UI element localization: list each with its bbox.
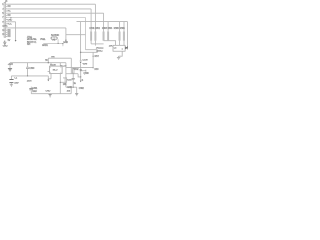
resistor R304 body [107,32,109,41]
U300 bottom pin 2 [59,74,61,94]
wire y93.7 bottom [31,93,71,95]
wire drop to R303 [103,13,105,41]
wire drop gnd net [85,18,87,50]
connector J300 body [4,3,6,38]
svg-text:NC: NC [8,11,12,13]
drop tail x62.9 [62,43,64,46]
svg-text:Q3012: Q3012 [96,51,103,53]
jumper drop wire [57,39,59,43]
svg-text:100n: 100n [27,80,32,82]
wire x71.3 drop [70,58,72,73]
svg-text:C302: C302 [79,88,85,90]
stub y77.9 left of x65.9 [63,77,66,79]
resistor R307 body [65,78,67,82]
resistor R302 body [95,32,97,41]
svg-text:4148: 4148 [83,63,88,65]
svg-text:10u: 10u [67,91,71,93]
svg-text:Q300: Q300 [84,73,90,75]
wire y87.2 [66,86,77,88]
ground under connector [3,41,6,45]
svg-text:R30: R30 [95,69,100,71]
wire y43.4 [43,42,63,44]
vcc drop x80.6 [80,22,82,60]
wire net6 long [7,27,66,29]
rail y62.7 [10,62,66,64]
wire x48.3 flag stub [47,76,49,80]
svg-text:10K: 10K [63,84,67,86]
junction node x80.7 [80,76,81,77]
svg-text:5V: 5V [8,40,11,42]
svg-text:GND1: GND1 [42,45,49,47]
junction node U300 pin [60,82,61,83]
resistor R305 lead [119,22,121,46]
wire x78.1 jog [78,74,81,77]
cap C300 top lead [27,63,29,67]
svg-text:U300: U300 [50,65,56,67]
flag arrow at x80.7 low [80,81,82,83]
svg-text:R302: R302 [74,69,80,71]
svg-text:VIN: VIN [51,57,55,59]
junction node bottom rail [73,87,74,88]
svg-text:MODE SEL: MODE SEL [27,39,38,41]
svg-text:RST: RST [95,56,100,58]
svg-text:C300: C300 [29,68,35,70]
gnd under box2 [117,56,120,59]
wire x76.7 gnd drop [76,87,78,93]
svg-text:1u: 1u [74,83,77,85]
svg-text:S: S [82,80,84,82]
wire y43.9 collector [91,43,104,45]
resistor R306 lead [123,22,125,46]
U300 top pin stubs [51,63,60,66]
wire x80.7 flag stub [80,77,82,81]
svg-text:NC: NC [5,26,9,28]
junction node in box LS300 [122,48,123,49]
wire x65.9 lower [65,82,67,87]
wire x73.2 lower comp [72,74,74,78]
wire net5 short [7,21,15,23]
wire y73.7 [66,73,78,75]
U300 bottom pin 1 [50,74,52,79]
cap C301 bottom-left leads [30,87,32,94]
svg-text:R306: R306 [120,28,126,30]
wire y67.6 [66,67,93,69]
vcc rail drop to box [127,22,129,48]
wire flag drop A [15,22,17,40]
stub y70.7 from x80.7 [81,70,86,72]
wire y82.3 [60,81,66,83]
U300 left pin stub [48,70,50,72]
wire y52.3 [81,51,98,53]
wire x48.3 drop [47,58,49,63]
svg-text:NC: NC [8,15,12,17]
cap C300 bottom lead [27,69,29,76]
svg-text:VCC: VCC [7,24,12,26]
box2 bottom pin wire [119,51,123,56]
svg-text:NC: NC [8,6,12,8]
junction node cap C300 [27,75,28,76]
svg-text:C1: C1 [14,78,18,80]
junction node at VCC drop [80,52,81,53]
flag arrow A [15,40,17,42]
svg-text:GND: GND [3,46,8,48]
svg-text:D300: D300 [83,60,89,62]
wire x71.2 riser [70,87,72,94]
resistor R308 leads [72,68,74,74]
junction node on reset line [93,56,94,57]
wire x93.1 drop [92,52,94,68]
wire y58.2 [48,57,71,59]
resistor R305 body [119,32,121,41]
connector pin stubs [6,4,8,36]
junction node at line end x93 [93,67,94,68]
connector pin numbers [2,4,5,36]
cap C300 plates [26,67,29,68]
diode D300 on x80.6 [80,60,82,63]
wire net1 top [7,3,95,5]
wire flag drop B [65,28,67,40]
svg-text:R303: R303 [67,79,73,81]
IC box U300 [50,66,63,73]
svg-text:GND: GND [63,42,68,44]
wire net2 [7,8,91,10]
svg-text:R304: R304 [108,28,113,30]
svg-text:LS: LS [114,47,117,49]
wire x80.6 lower [80,64,82,68]
left power sym stub [9,63,11,69]
wire net3 [7,12,103,14]
junction on pin7 wire [10,17,11,18]
gnd left power [8,69,12,71]
flag arrow B / gnd mark [65,40,67,42]
svg-text:R305: R305 [114,28,120,30]
svg-text:R302: R302 [95,28,100,30]
note text block rows [27,36,38,46]
svg-text:13: 13 [2,30,5,32]
resistor R301 body [90,32,92,41]
wire x73.2 to bottom rail [72,80,74,87]
gnd under C302 [10,85,13,87]
mark at end of y70.7 stub [85,70,87,72]
svg-text:1-2: 1-2 [52,40,56,42]
cap C301 plates [29,88,33,89]
wire y49.7 [86,49,98,51]
resistor R303 body [103,32,105,41]
wire drop to R301 [90,9,92,44]
wire net4 [7,17,85,19]
flag arrow at x48.3 [47,80,49,82]
connector unused pin marks [8,6,12,38]
svg-text:MCU: MCU [53,70,58,72]
junction dot jumper net [58,43,59,44]
svg-text:GND: GND [7,20,12,22]
diode at box2 right [125,46,127,49]
jumper SJ300 body [51,37,57,39]
svg-text:10uF: 10uF [14,82,19,84]
wire x65.9 vertical chain [65,63,67,78]
wire box pin jog [48,78,51,80]
cap C302 plates [9,80,13,83]
wire y75.9 [11,75,48,77]
resistor R308 body [72,69,74,74]
cap C303 body [72,79,75,80]
resistor R306 body [123,32,125,41]
wire drop to R302 [94,4,96,45]
svg-text:J3: J3 [5,1,8,3]
cap C302 left leads [10,76,12,85]
vcc rail top right [77,21,128,23]
gnd mid bottom [49,95,52,97]
box2 right feed wire [125,46,127,48]
junction dot right tail [62,43,63,44]
jumper pad split [53,37,55,39]
wire y40.7 to box [104,41,116,46]
resistor R304 lead [107,22,109,41]
svg-text:15: 15 [2,34,5,36]
svg-text:2N2222: 2N2222 [96,48,104,50]
wire emitter drop [96,50,98,53]
junction dots [27,48,123,87]
junction node rail feed [48,62,49,63]
svg-text:+3V3: +3V3 [8,64,14,66]
svg-text:VCC33: VCC33 [60,65,67,67]
svg-text:VSEL: VSEL [40,39,46,41]
svg-text:SPI: SPI [27,44,31,46]
svg-text:NC: NC [8,36,12,38]
wire x80.7 lower drop [80,68,82,77]
buzzer box LS300 [113,45,125,51]
svg-text:GND: GND [46,91,51,93]
svg-text:GND: GND [67,87,72,89]
U300 interior pin marks [50,67,61,73]
svg-text:10K: 10K [109,45,113,47]
wire branch y34.7 [66,34,86,36]
gnd bottom right [75,93,78,95]
svg-text:10uF: 10uF [32,91,37,93]
gnd stub mid bottom [49,93,51,96]
